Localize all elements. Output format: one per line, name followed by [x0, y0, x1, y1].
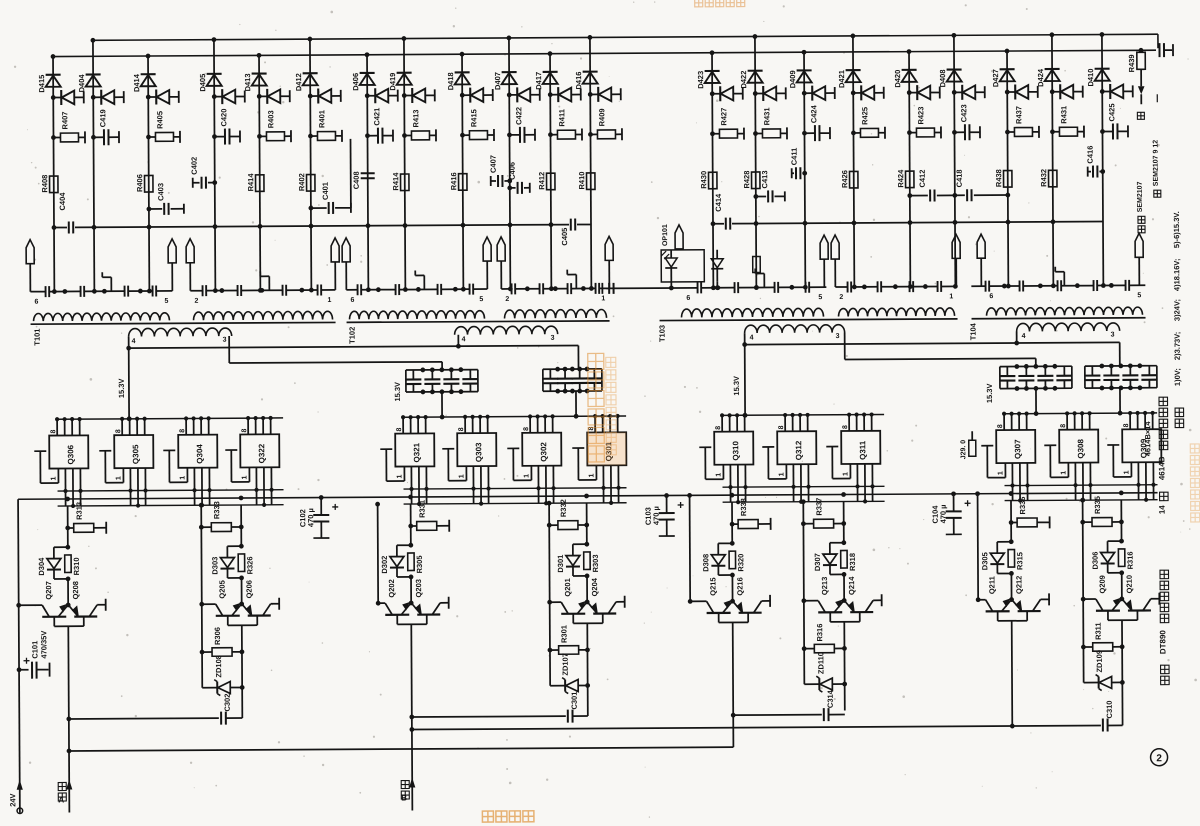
svg-text:1)0V;: 1)0V;	[1173, 368, 1182, 386]
capacitor bank under T104 C	[1000, 365, 1072, 367]
diode D417	[543, 71, 558, 73]
svg-text:ZD109: ZD109	[1095, 650, 1104, 673]
ic Q307	[996, 430, 1035, 463]
diode D420	[902, 69, 917, 71]
svg-text:C424: C424	[809, 104, 818, 123]
ferrite bead	[1135, 233, 1143, 257]
wire bundle group4 lower	[1005, 499, 1158, 502]
svg-text:C403: C403	[156, 183, 165, 201]
resistor R431	[1050, 129, 1055, 134]
transformer T101 core	[31, 322, 336, 324]
svg-text:D417: D417	[534, 72, 543, 90]
wire top bus 1	[93, 34, 1158, 40]
transformer T104 primary winding 6-5	[986, 307, 1142, 316]
junction at D412 chain	[309, 288, 314, 293]
svg-text:2: 2	[839, 294, 843, 301]
svg-text:R412: R412	[537, 172, 546, 190]
resistor R301 zener ZD107	[548, 648, 553, 653]
svg-text:R401: R401	[317, 110, 326, 128]
svg-text:R416: R416	[449, 172, 458, 190]
ferrite bead	[820, 235, 828, 259]
svg-text:2: 2	[194, 298, 198, 305]
capacitor chain	[774, 282, 776, 293]
svg-text:C406: C406	[508, 162, 517, 180]
capacitor bank under T102 A	[406, 369, 478, 371]
stub hook	[1063, 272, 1065, 286]
svg-text:470/35V: 470/35V	[39, 631, 48, 659]
svg-text:R408: R408	[40, 175, 49, 193]
svg-text:R438: R438	[994, 169, 1003, 187]
transformer T103 secondary 4-3	[745, 325, 845, 333]
watermark top right	[695, 0, 745, 7]
ferrite bead	[977, 234, 985, 258]
resistor R332	[547, 523, 552, 528]
capacitor C423	[952, 130, 957, 135]
watermark bottom	[482, 811, 534, 822]
svg-text:ZD107: ZD107	[561, 653, 570, 676]
capacitor chain	[437, 284, 439, 295]
svg-text:Q305: Q305	[131, 444, 140, 464]
stub hook	[575, 275, 577, 289]
svg-text:8: 8	[179, 429, 186, 433]
capacitor C425	[1100, 129, 1105, 134]
svg-text:6: 6	[34, 299, 38, 306]
svg-text:D303: D303	[210, 557, 219, 575]
svg-text:D308: D308	[701, 554, 710, 572]
svg-text:R430: R430	[699, 171, 708, 189]
svg-text:D305: D305	[980, 552, 989, 570]
ic Q312	[777, 431, 816, 464]
wire T103 pin3 to grid C	[844, 332, 846, 359]
svg-text:1: 1	[241, 475, 248, 479]
diode D308 resistor R320	[730, 541, 735, 546]
junction at D422 chain	[754, 285, 759, 290]
wire coupling chain 836-958	[835, 286, 847, 288]
svg-text:C413: C413	[760, 170, 769, 188]
diode clamp at D419	[402, 93, 407, 98]
resistor R413	[402, 133, 407, 138]
svg-text:470 µ: 470 µ	[939, 504, 948, 523]
transistor pair Q207 Q208	[16, 603, 21, 608]
diode D307 resistor R318	[841, 540, 846, 545]
resistor R401	[308, 134, 313, 139]
transformer T103 core	[660, 319, 958, 321]
watermark center	[588, 353, 605, 462]
junction at D405 chain	[213, 288, 218, 293]
svg-text:D306: D306	[1091, 552, 1100, 570]
svg-text:470 µ: 470 µ	[652, 506, 661, 525]
capacitor chain	[202, 285, 204, 296]
wire bundle group3 upper	[723, 485, 885, 488]
diode D301 resistor R303	[584, 542, 589, 547]
resistor R426	[849, 171, 857, 188]
wire column D406	[367, 55, 368, 290]
optocoupler OP101	[661, 250, 704, 282]
resistor R411	[548, 132, 553, 137]
svg-text:Q213: Q213	[820, 577, 829, 595]
diode D416	[583, 71, 598, 73]
resistor R402	[307, 175, 315, 192]
svg-text:R306: R306	[213, 627, 222, 645]
diode D421	[846, 69, 861, 71]
diode D410	[1095, 68, 1110, 70]
svg-text:R423: R423	[916, 107, 925, 125]
svg-text:R437: R437	[1014, 106, 1023, 124]
svg-text:T101: T101	[33, 329, 42, 346]
wire 24V rail left	[18, 499, 20, 812]
ferrite bead	[331, 238, 339, 262]
svg-text:SEM2107 9 12: SEM2107 9 12	[1153, 140, 1160, 186]
svg-text:R428: R428	[742, 171, 751, 189]
ferrite bead	[168, 239, 176, 263]
ic Q321	[395, 433, 434, 466]
wire T104 pin4 lead	[1016, 332, 1018, 343]
svg-text:15.3V: 15.3V	[985, 384, 994, 404]
resistor R410	[586, 173, 594, 190]
svg-text:R303: R303	[591, 554, 600, 572]
resistor R423	[907, 130, 912, 135]
diode clamp at D404	[91, 95, 96, 100]
svg-text:8: 8	[1060, 424, 1067, 428]
svg-text:R413: R413	[411, 110, 420, 128]
resistor R405	[146, 135, 151, 140]
svg-text:8: 8	[241, 428, 248, 432]
svg-text:4: 4	[1022, 333, 1026, 340]
capacitor bank under T104 D	[1085, 365, 1157, 367]
wire cluster6 main	[843, 502, 845, 543]
stub hook	[110, 277, 112, 291]
diode D407	[502, 71, 517, 73]
stub hook	[423, 275, 425, 289]
svg-text:5: 5	[164, 298, 168, 305]
stub hook	[763, 273, 765, 287]
svg-text:1: 1	[458, 474, 465, 478]
transistor pair Q209 Q210	[1081, 597, 1086, 602]
wire T102 pin4 lead	[457, 335, 459, 346]
svg-text:R425: R425	[860, 107, 869, 125]
svg-text:Q214: Q214	[847, 576, 856, 595]
svg-text:R335: R335	[1093, 496, 1102, 514]
page number circled 2	[1151, 749, 1168, 766]
diode D409	[797, 69, 812, 71]
svg-text:R409: R409	[597, 108, 606, 126]
capacitor top-right	[1159, 42, 1161, 50]
wire coupling chain 972-1146	[971, 285, 985, 287]
svg-text:8: 8	[997, 424, 1004, 428]
svg-text:1: 1	[327, 297, 331, 304]
svg-text:C419: C419	[98, 109, 107, 127]
ic Q306	[49, 435, 88, 468]
resistor R438	[1003, 171, 1011, 188]
svg-text:R402: R402	[297, 173, 306, 191]
wire coupling chain 191-336	[190, 290, 202, 292]
svg-text:D408: D408	[938, 69, 947, 87]
capacitor chain	[282, 285, 284, 296]
diode D406	[360, 72, 375, 74]
svg-text:R331: R331	[418, 500, 427, 518]
ferrite bead	[497, 237, 505, 261]
svg-text:C416: C416	[1086, 146, 1095, 164]
svg-text:Q212: Q212	[1014, 576, 1023, 594]
svg-text:8: 8	[458, 427, 465, 431]
svg-text:5)-6)15.3V.: 5)-6)15.3V.	[1172, 211, 1181, 248]
svg-text:C302: C302	[223, 694, 232, 712]
svg-text:R316: R316	[815, 624, 824, 642]
wire C412/C418 link	[910, 195, 928, 197]
ferrite bead	[675, 225, 683, 249]
svg-text:R338: R338	[739, 498, 748, 516]
svg-text:R427: R427	[719, 108, 728, 126]
capacitor chain	[697, 282, 699, 293]
junction at D420 chain	[908, 284, 913, 289]
resistor R425	[851, 131, 856, 136]
resistor R331	[408, 524, 413, 529]
resistor J29.0	[969, 440, 976, 456]
resistor R316 zener ZD110	[802, 646, 807, 651]
svg-text:C310: C310	[1105, 701, 1114, 719]
wire bridge right with C414	[713, 223, 724, 225]
wire W2 long with capacitor C310	[409, 727, 414, 732]
svg-text:2)3.73V;: 2)3.73V;	[1173, 332, 1182, 360]
svg-text:Q307: Q307	[1013, 439, 1022, 459]
svg-text:D424: D424	[1036, 68, 1045, 87]
svg-text:3: 3	[551, 335, 555, 342]
capacitor C103	[664, 493, 669, 498]
diode D423	[705, 70, 720, 72]
wire W1b with capacitor C301	[409, 715, 414, 720]
resistor R335	[1080, 520, 1085, 525]
svg-text:C418: C418	[955, 169, 964, 187]
diode clamp at D427	[1005, 90, 1010, 95]
resistor R428	[751, 172, 759, 189]
capacitor C419	[91, 135, 96, 140]
ferrite bead	[605, 236, 613, 260]
junction at D406 chain	[366, 287, 371, 292]
diode D306 resistor R316	[1119, 539, 1124, 544]
svg-text:D409: D409	[788, 70, 797, 88]
wire column D418	[462, 54, 463, 289]
diode clamp at D417	[548, 92, 553, 97]
diode clamp at D418	[460, 93, 465, 98]
capacitor chain	[847, 281, 849, 292]
svg-text:C414: C414	[714, 193, 723, 212]
capacitor chain	[1125, 280, 1127, 291]
svg-text:Q210: Q210	[1125, 575, 1134, 593]
svg-text:4)18.16V;: 4)18.16V;	[1172, 259, 1181, 292]
svg-text:Q201: Q201	[563, 578, 572, 596]
svg-text:4: 4	[750, 335, 754, 342]
capacitor chain	[511, 283, 513, 294]
svg-text:B: B	[401, 794, 407, 803]
svg-text:R407: R407	[60, 112, 69, 130]
capacitor chain	[539, 283, 541, 294]
capacitor chain	[1093, 280, 1095, 291]
wire column D424	[1052, 35, 1053, 286]
resistor R407	[51, 135, 56, 140]
junction at D408 chain	[953, 284, 958, 289]
capacitor chain	[317, 285, 319, 296]
diode clamp at D421	[851, 91, 856, 96]
junction at D413 chain	[258, 288, 263, 293]
capacitor bank under T102 B	[543, 368, 602, 370]
resistor R412	[547, 173, 555, 190]
svg-text:Q207: Q207	[44, 581, 53, 599]
capacitor chain	[357, 284, 359, 295]
svg-text:R403: R403	[266, 110, 275, 128]
svg-text:1: 1	[949, 293, 953, 300]
wire bundle group1 lower	[58, 505, 284, 506]
resistor R415	[460, 133, 465, 138]
resistor R431	[753, 131, 758, 136]
resistor R338	[730, 522, 735, 527]
diode clamp at D408	[952, 90, 957, 95]
svg-text:D416: D416	[574, 72, 583, 90]
wire column D416	[590, 37, 591, 288]
junction at D416 chain	[589, 286, 594, 291]
svg-text:1: 1	[601, 295, 605, 302]
svg-text:C421: C421	[372, 108, 381, 126]
svg-text:14: 14	[1158, 505, 1167, 515]
capacitor C411	[802, 171, 807, 176]
diode D415	[46, 74, 61, 76]
svg-text:C404: C404	[58, 192, 67, 211]
junction at D414 chain	[147, 289, 152, 294]
ic Q308	[1059, 430, 1098, 463]
resistor R439	[1139, 48, 1144, 53]
svg-text:5: 5	[818, 294, 822, 301]
wire arrow right margin	[1140, 94, 1142, 104]
capacitor chain	[152, 285, 154, 296]
wire T101 pin4 feed 15.3V	[128, 337, 130, 348]
junction at D419 chain	[403, 287, 408, 292]
svg-text:R426: R426	[840, 170, 849, 188]
wire cluster8 main	[1120, 500, 1122, 541]
svg-text:A: A	[58, 796, 64, 805]
resistor R337	[801, 521, 806, 526]
junction at D409 chain	[803, 285, 808, 290]
diode clamp at D423	[710, 91, 715, 96]
wire column D419	[404, 39, 405, 290]
resistor R333	[199, 525, 204, 530]
label SEM2107 pin9-7	[1137, 112, 1144, 119]
wire feed IC group2 15.3V	[441, 392, 443, 417]
svg-text:R431: R431	[1059, 106, 1068, 124]
svg-text:D410: D410	[1086, 69, 1095, 87]
svg-text:C301: C301	[570, 692, 579, 710]
svg-text:Q208: Q208	[71, 581, 80, 599]
wire T103 pin4 rail to grid D	[745, 342, 1120, 344]
resistor at OP101	[753, 256, 761, 272]
wire cluster7 left rail	[977, 494, 980, 600]
capacitor C406	[507, 186, 512, 191]
svg-text:ZD108: ZD108	[214, 655, 223, 678]
svg-text:D420: D420	[893, 70, 902, 88]
svg-text:R415: R415	[469, 109, 478, 127]
wire cluster3 main	[410, 504, 412, 545]
ferrite bead	[831, 235, 839, 259]
svg-text:Q202: Q202	[387, 579, 396, 597]
svg-text:C411: C411	[790, 148, 799, 166]
wire column D413	[259, 55, 260, 290]
ic Q303	[457, 433, 496, 466]
wire column D420	[909, 52, 910, 287]
junction at D417 chain	[549, 286, 554, 291]
svg-text:1: 1	[523, 474, 530, 478]
capacitor chain	[1057, 280, 1059, 291]
diode D404	[86, 73, 101, 75]
transformer T101 primary winding 6-5	[33, 313, 169, 321]
svg-text:D427: D427	[991, 69, 1000, 87]
resistor R408	[50, 176, 58, 193]
svg-text:8: 8	[50, 430, 57, 434]
transformer T104 core	[972, 318, 1146, 319]
capacitor chain	[805, 282, 807, 293]
wire cluster4 left rail	[549, 503, 550, 685]
resistor R406	[145, 175, 153, 192]
svg-text:R313: R313	[75, 502, 84, 520]
svg-text:R305: R305	[415, 555, 424, 573]
svg-text:24V: 24V	[8, 793, 17, 806]
capacitor C407	[507, 179, 512, 184]
svg-text:Q306: Q306	[66, 444, 75, 464]
wire cluster2 main	[240, 505, 242, 546]
junction at D415 chain	[52, 289, 57, 294]
watermark right edge	[1190, 444, 1199, 522]
diode clamp at D409	[802, 91, 807, 96]
svg-text:D414: D414	[132, 73, 141, 92]
resistor R437	[1005, 130, 1010, 135]
transistor pair Q215 Q216	[688, 599, 693, 604]
svg-text:T102: T102	[348, 327, 357, 344]
svg-text:Q203: Q203	[414, 579, 423, 597]
diode clamp at D405	[212, 94, 217, 99]
capacitor C104	[951, 491, 956, 496]
ferrite bead	[342, 238, 350, 262]
svg-text:1: 1	[997, 471, 1004, 475]
wire cluster7 main	[1010, 501, 1012, 542]
svg-text:D407: D407	[493, 72, 502, 90]
svg-text:15.3V: 15.3V	[732, 376, 741, 396]
transistor pair Q201 Q204	[547, 600, 552, 605]
capacitor chain	[877, 281, 879, 292]
wire column D422	[755, 37, 756, 288]
diode clamp at D420	[907, 90, 912, 95]
diode D405	[207, 73, 222, 75]
wire cluster5 main	[731, 502, 733, 543]
resistor R336	[1009, 520, 1014, 525]
diode clamp at D406	[365, 93, 370, 98]
svg-text:4: 4	[132, 338, 136, 345]
wire bundle group2 upper	[404, 488, 627, 489]
capacitor C401	[308, 206, 313, 211]
svg-text:4: 4	[462, 336, 466, 343]
svg-text:C402: C402	[190, 157, 199, 175]
diode D302 resistor R305	[408, 543, 413, 548]
resistor R414	[401, 174, 409, 191]
transformer T103 primary winding 6-5	[681, 308, 823, 317]
transistor pair Q205 Q206	[199, 602, 204, 607]
svg-text:D419: D419	[388, 73, 397, 91]
wire W3 long	[67, 749, 72, 754]
stub hook	[268, 276, 270, 290]
svg-text:D304: D304	[37, 557, 46, 576]
wire cluster1 vertical	[67, 506, 69, 547]
svg-text:C422: C422	[514, 107, 523, 125]
svg-text:Q304: Q304	[195, 444, 204, 464]
diode clamp at D414	[146, 95, 151, 100]
terminal drive B	[409, 777, 415, 787]
svg-text:1: 1	[179, 476, 186, 480]
